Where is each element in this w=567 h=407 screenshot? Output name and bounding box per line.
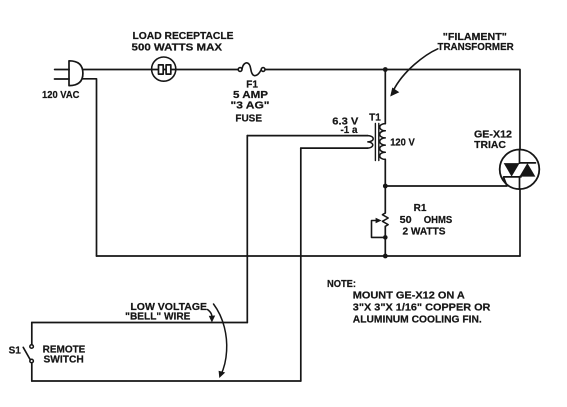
svg-text:MOUNT GE-X12 ON A: MOUNT GE-X12 ON A	[353, 290, 465, 301]
svg-text:ALUMINUM COOLING FIN.: ALUMINUM COOLING FIN.	[353, 314, 482, 325]
svg-text:3"X 3"X 1/16" COPPER OR: 3"X 3"X 1/16" COPPER OR	[353, 302, 491, 313]
svg-text:S1: S1	[9, 345, 22, 356]
svg-text:R1: R1	[414, 203, 427, 214]
svg-text:120 V: 120 V	[390, 138, 415, 149]
svg-text:OHMS: OHMS	[424, 215, 453, 226]
svg-text:LOAD RECEPTACLE: LOAD RECEPTACLE	[133, 31, 234, 42]
svg-text:FUSE: FUSE	[235, 113, 262, 124]
svg-text:T1: T1	[369, 113, 381, 124]
svg-text:GE-X12: GE-X12	[474, 129, 512, 140]
svg-text:120 VAC: 120 VAC	[42, 90, 79, 101]
svg-text:5 AMP: 5 AMP	[233, 90, 268, 101]
svg-text:2 WATTS: 2 WATTS	[403, 226, 446, 237]
svg-text:500 WATTS MAX: 500 WATTS MAX	[132, 43, 223, 54]
svg-text:"3 AG": "3 AG"	[231, 101, 270, 112]
svg-text:50: 50	[400, 215, 412, 226]
svg-text:TRIAC: TRIAC	[474, 140, 506, 151]
svg-text:TRANSFORMER: TRANSFORMER	[438, 42, 515, 53]
svg-text:-1 a: -1 a	[341, 125, 358, 136]
svg-text:NOTE:: NOTE:	[327, 279, 356, 290]
svg-text:"BELL" WIRE: "BELL" WIRE	[125, 312, 191, 323]
svg-text:SWITCH: SWITCH	[44, 355, 84, 366]
